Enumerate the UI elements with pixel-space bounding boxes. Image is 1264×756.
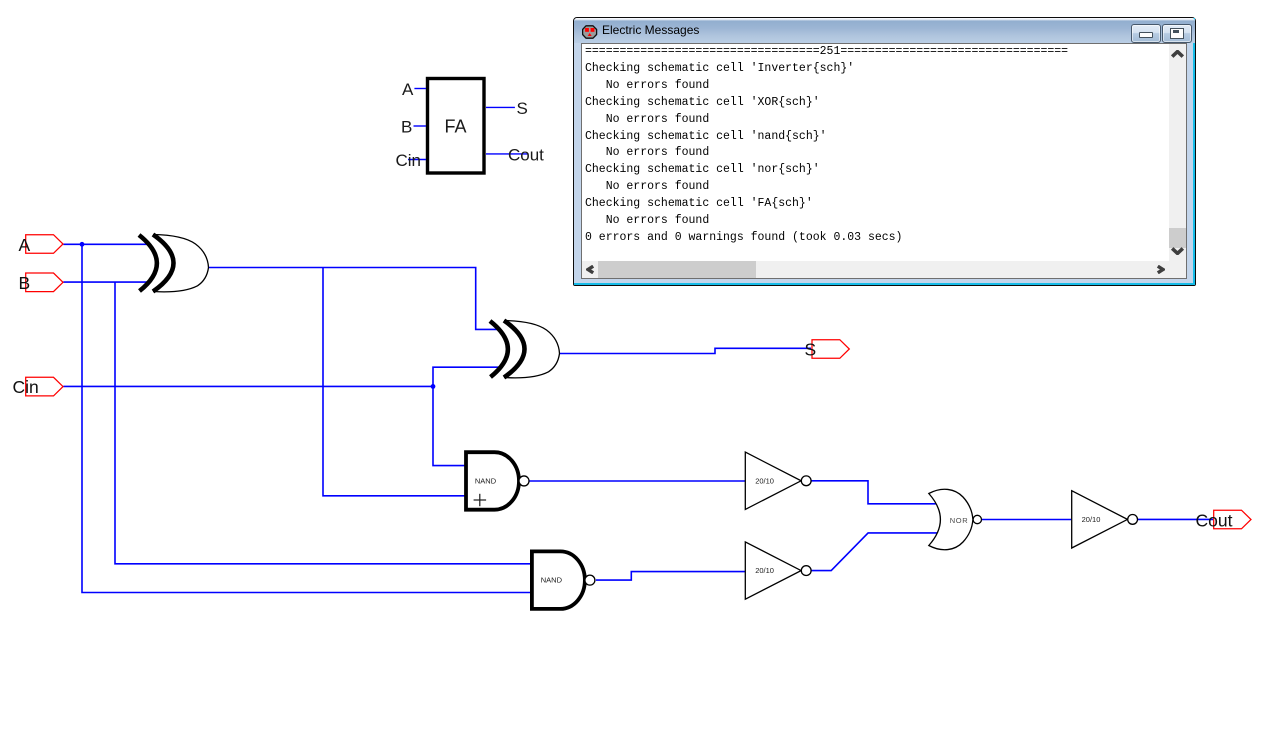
input port Cin [26, 377, 63, 396]
junction dot on wire A [80, 242, 85, 247]
svg-text:A: A [402, 80, 414, 99]
svg-text:NOR: NOR [950, 516, 968, 525]
wire Cin up to XOR2 input [433, 367, 499, 386]
wire branch XOR1 out to NAND1 bottom input [323, 268, 467, 496]
FA pin wire A [414, 88, 426, 90]
FA pin wire S [486, 106, 515, 108]
input port A [26, 235, 63, 254]
wire A vertical branch down [82, 244, 532, 592]
client area [581, 43, 1187, 279]
svg-text:Cout: Cout [508, 146, 544, 165]
vertical scrollbar [1169, 44, 1186, 261]
svg-text:S: S [517, 99, 528, 118]
Electric Messages window [573, 17, 1196, 286]
electric icon [582, 25, 598, 39]
wire A from port to XOR1 [63, 243, 149, 245]
svg-text:S: S [805, 340, 817, 360]
wire NAND1 output to INV1 [529, 480, 745, 482]
svg-text:FA: FA [445, 117, 467, 137]
wire B vertical branch down [115, 282, 532, 564]
wire NAND2 output to INV2 [596, 572, 745, 581]
title bar [574, 18, 1195, 43]
FA block symbol [428, 79, 485, 174]
cyan accent bottom [574, 283, 1195, 285]
NOR gate [929, 489, 982, 549]
junction dot on wire Cin [431, 384, 436, 389]
wire Cin down to NAND1 input [433, 386, 467, 465]
svg-text:B: B [401, 118, 412, 137]
wire INV2 output to NOR bottom input [811, 533, 940, 571]
output port Cout [1214, 510, 1251, 529]
NAND gate 2 [532, 551, 595, 609]
XOR gate 2 [490, 321, 560, 378]
wire NOR output to INV3 [982, 519, 1071, 521]
wire Cin horizontal [63, 385, 433, 387]
message text [585, 44, 1068, 247]
wire INV3 output to Cout port [1138, 518, 1213, 520]
NAND gate 1 [466, 452, 529, 510]
inverter INV1 [745, 452, 811, 509]
cyan accent right [1193, 18, 1195, 285]
svg-text:Cin: Cin [396, 151, 422, 170]
wire XOR2 output to S port [560, 348, 812, 353]
output port S [812, 340, 849, 359]
FA pin wire B [414, 125, 427, 127]
wire INV1 output to NOR top input [811, 481, 940, 504]
XOR gate 1 [139, 235, 209, 292]
svg-text:Cout: Cout [1196, 511, 1233, 531]
minimize button [1131, 24, 1161, 43]
svg-text:Cin: Cin [13, 377, 39, 397]
inverter INV2 [745, 542, 811, 599]
FA pin wire Cin [408, 159, 426, 161]
plus marker on NAND1 [474, 494, 487, 506]
inverter INV3 [1072, 491, 1138, 548]
FA pin wire Cout [486, 153, 529, 155]
wire XOR1 output to XOR2 top input [209, 268, 500, 330]
horizontal scrollbar [582, 261, 1186, 278]
svg-text:A: A [19, 235, 31, 255]
maximize button [1162, 24, 1192, 43]
wire B from port to XOR1 [63, 281, 149, 283]
svg-text:B: B [19, 273, 31, 293]
title text [602, 23, 699, 37]
input port B [26, 273, 63, 292]
